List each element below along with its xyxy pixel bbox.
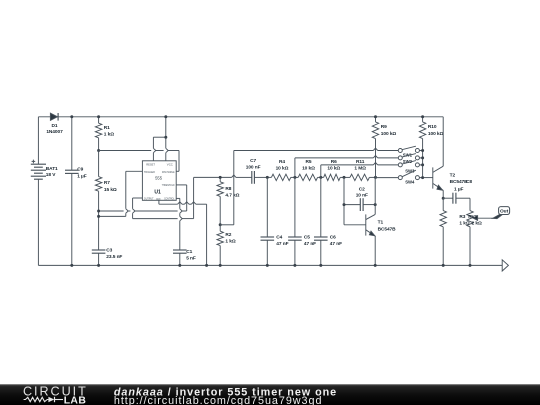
svg-text:47 nF: 47 nF: [330, 241, 342, 247]
node SW2 rail: [421, 156, 424, 159]
node vcc top rail: [164, 115, 167, 118]
svg-text:1 µF: 1 µF: [77, 173, 87, 179]
resistor R5: [295, 176, 298, 178]
svg-text:BC547B: BC547B: [378, 226, 397, 232]
output port triangle: [502, 260, 508, 271]
svg-text:R6: R6: [331, 159, 337, 165]
resistor R1: [98, 117, 100, 123]
svg-text:C2: C2: [359, 187, 365, 193]
node SW3 rail: [421, 163, 424, 166]
svg-text:C5: C5: [304, 234, 310, 240]
node R10 top: [421, 115, 424, 118]
wire SW1 tap: [233, 151, 235, 225]
svg-text:1N4007: 1N4007: [46, 129, 63, 135]
svg-text:T2: T2: [450, 173, 456, 179]
capacitor C7: [251, 171, 253, 184]
svg-text:BAT1: BAT1: [46, 166, 58, 172]
svg-text:D1: D1: [52, 123, 58, 129]
svg-text:5 nF: 5 nF: [186, 255, 196, 261]
svg-text:18 V: 18 V: [46, 172, 56, 178]
capacitor C3: [92, 249, 106, 251]
svg-text:1 kΩ: 1 kΩ: [225, 239, 235, 245]
node R1 bottom: [97, 149, 100, 152]
svg-text:C7: C7: [250, 158, 256, 164]
node C2 left: [343, 203, 346, 206]
svg-text:10 kΩ: 10 kΩ: [302, 165, 315, 171]
svg-text:Out: Out: [500, 208, 509, 214]
node R9 top: [374, 115, 377, 118]
node reset-vcc: [164, 136, 167, 139]
switch SW1: [398, 149, 402, 153]
node T2 emitter: [442, 197, 445, 200]
svg-text:R2: R2: [225, 232, 231, 238]
diode D1: [50, 113, 57, 120]
node C9 bottom: [70, 264, 73, 267]
wire control: [176, 197, 180, 199]
node R3 bottom: [442, 264, 445, 267]
svg-text:R1: R1: [104, 125, 110, 131]
svg-text:RESET: RESET: [146, 162, 155, 166]
node C5 bottom: [293, 264, 296, 267]
svg-text:OUTPUT: OUTPUT: [144, 197, 154, 201]
node R8 top: [219, 176, 222, 179]
node C1 bottom: [178, 264, 181, 267]
svg-text:C8: C8: [466, 179, 472, 185]
svg-text:47 nF: 47 nF: [276, 241, 288, 247]
capacitor C9: [71, 117, 73, 170]
footer: [0, 384, 540, 405]
node C6 bottom: [319, 264, 322, 267]
svg-text:10 kΩ: 10 kΩ: [327, 165, 340, 171]
svg-text:U1: U1: [154, 190, 161, 196]
node C5 top: [293, 176, 296, 179]
resistor R4: [267, 176, 271, 178]
svg-text:C3: C3: [106, 248, 112, 254]
capacitor C5: [294, 177, 296, 237]
svg-text:47 nF: 47 nF: [304, 241, 316, 247]
node trigger join: [97, 215, 100, 218]
node R2 bottom: [219, 264, 222, 267]
wire SW1 line: [234, 150, 373, 152]
wire gnd pin: [158, 200, 160, 204]
potentiometer RV1: [467, 211, 473, 227]
node RV1 bottom: [469, 264, 472, 267]
battery BAT1: [31, 163, 46, 165]
svg-text:R7: R7: [104, 180, 110, 186]
svg-text:2 kΩ: 2 kΩ: [472, 220, 482, 226]
svg-text:RV1: RV1: [468, 214, 477, 220]
wire reset: [152, 137, 154, 148]
svg-text:SW4: SW4: [405, 179, 415, 184]
svg-text:100 kΩ: 100 kΩ: [381, 131, 397, 137]
svg-text:R11: R11: [356, 159, 365, 165]
resistor R6: [321, 176, 324, 178]
svg-text:C6: C6: [330, 234, 336, 240]
wire SW3 line: [320, 165, 322, 178]
node C6 top: [319, 176, 322, 179]
svg-text:23.5 nF: 23.5 nF: [106, 254, 122, 260]
svg-text:1 kΩ: 1 kΩ: [104, 131, 114, 137]
svg-text:1 MΩ: 1 MΩ: [354, 165, 366, 171]
svg-text:10 nF: 10 nF: [356, 193, 368, 199]
svg-text:CONTROL: CONTROL: [164, 197, 175, 201]
resistor R8: [219, 177, 221, 181]
svg-text:555: 555: [155, 176, 163, 181]
svg-text:10 kΩ: 10 kΩ: [276, 165, 289, 171]
node SW4 rail: [421, 176, 424, 179]
switch SW4: [398, 176, 402, 180]
node C2 right: [374, 203, 377, 206]
node T1 emitter rail: [374, 264, 377, 267]
wire SW4 line: [376, 177, 399, 179]
resistor R10: [422, 117, 424, 122]
node C4 top: [266, 176, 269, 179]
capacitor C6: [320, 177, 322, 237]
svg-text:1 kΩ: 1 kΩ: [459, 220, 469, 226]
wire C2 left: [343, 177, 345, 224]
svg-text:4.7 kΩ: 4.7 kΩ: [225, 193, 239, 199]
resistor R7: [98, 151, 100, 177]
node R1 top: [97, 115, 100, 118]
node SW1 rail: [421, 149, 424, 152]
wire bottom rail: [38, 264, 502, 266]
switch SW2: [398, 156, 402, 160]
capacitor C2: [344, 204, 360, 206]
svg-text:R5: R5: [306, 159, 312, 165]
node gnd rail: [205, 264, 208, 267]
svg-text:1 µF: 1 µF: [454, 187, 464, 193]
wire vcc: [165, 117, 167, 149]
wire top supply rail: [38, 116, 443, 118]
resistor R3: [442, 198, 444, 210]
svg-text:100 nF: 100 nF: [246, 164, 261, 170]
wire output net: [133, 197, 143, 199]
node C3 bottom: [97, 264, 100, 267]
capacitor C1: [173, 249, 187, 251]
node C9 top: [70, 115, 73, 118]
svg-text:R4: R4: [279, 159, 285, 165]
op-amp U1 555 timer: [142, 161, 176, 201]
svg-text:http://circuitlab.com/cgd75ua7: http://circuitlab.com/cgd75ua79w3gd: [114, 395, 323, 405]
node threshold join: [97, 210, 100, 213]
transistor T1: [365, 214, 367, 235]
svg-text:C4: C4: [276, 234, 282, 240]
wire discharge: [99, 150, 152, 152]
flag Out: [493, 214, 503, 218]
svg-text:C1: C1: [186, 249, 192, 255]
svg-text:TRIGGER: TRIGGER: [144, 170, 156, 174]
svg-text:THRESHOLD: THRESHOLD: [162, 183, 175, 187]
resistor R11: [344, 176, 350, 178]
svg-text:VCC: VCC: [167, 162, 174, 166]
node T1 base tap: [343, 176, 346, 179]
svg-text:DISCHARGE: DISCHARGE: [162, 170, 175, 174]
switch SW3: [398, 163, 402, 167]
svg-text:100 kΩ: 100 kΩ: [428, 131, 444, 137]
wire trigger: [126, 170, 143, 172]
wire threshold net: [99, 210, 124, 212]
svg-text:R10: R10: [428, 124, 437, 130]
node R8 R2 junction: [219, 223, 222, 226]
svg-text:R9: R9: [381, 124, 387, 130]
svg-text:15 kΩ: 15 kΩ: [104, 187, 117, 193]
capacitor C4: [266, 177, 268, 237]
svg-text:R3: R3: [459, 214, 465, 220]
wire SW2 line: [294, 158, 296, 178]
svg-text:R8: R8: [225, 186, 231, 192]
svg-text:T1: T1: [378, 220, 384, 226]
node R11 right: [374, 176, 377, 179]
transistor T2: [432, 167, 434, 188]
resistor R2: [219, 225, 221, 231]
capacitor C8: [443, 197, 453, 199]
wire main line left: [194, 176, 232, 178]
svg-text:C9: C9: [77, 167, 83, 173]
wire left rail: [37, 117, 39, 164]
svg-text:LAB: LAB: [64, 395, 87, 405]
node C4 bottom: [266, 264, 269, 267]
resistor R9: [375, 117, 377, 122]
